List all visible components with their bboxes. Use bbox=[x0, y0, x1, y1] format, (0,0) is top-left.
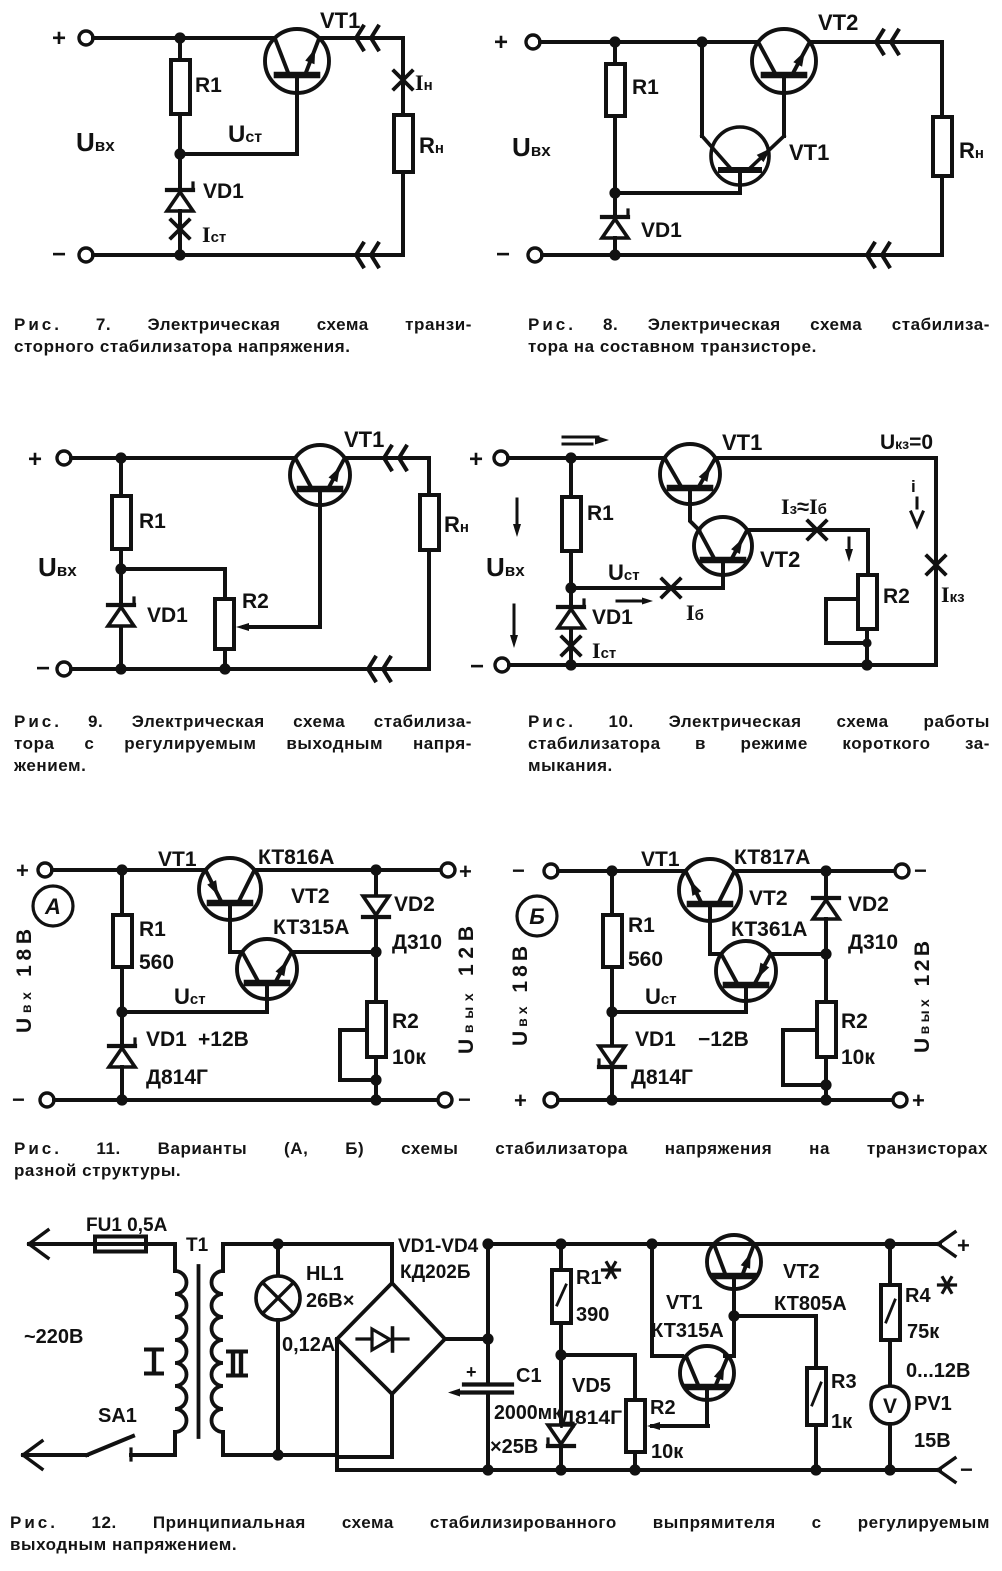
Рис.8: wire VD1 to bottom rail bbox=[613, 238, 617, 255]
Рис.9: wire R2 bottom to rail bbox=[223, 649, 227, 669]
Рис.8: zener diode VD1 bbox=[602, 193, 682, 242]
Рис.9: wiper arrow from VT1 base into R2 bbox=[236, 623, 320, 631]
svg-text:КД202Б: КД202Б bbox=[400, 1262, 471, 1283]
svg-text:−: − bbox=[458, 1087, 471, 1112]
svg-text:R2: R2 bbox=[242, 590, 269, 613]
svg-text:VD1-VD4: VD1-VD4 bbox=[398, 1236, 479, 1257]
Рис.7: top wire from + terminal to VT1 collector bbox=[93, 36, 275, 40]
Рис.12: transformer T1 primary winding I bbox=[146, 1235, 209, 1455]
Рис.11Б: wire R1 bottom to Uст node bbox=[610, 967, 614, 1012]
Рис.11А: junction dot at R2 link bbox=[370, 1074, 381, 1085]
Рис.7: zener diode VD1 bbox=[167, 154, 244, 211]
Рис.11Б: node Uст junction bbox=[606, 1006, 617, 1017]
Рис.11А: transistor VT1 (КТ816А) bbox=[158, 846, 334, 920]
Рис.10: potentiometer R2 bbox=[858, 575, 910, 629]
svg-text:1к: 1к bbox=[831, 1411, 853, 1433]
Рис.11А: wire Uст node to VT2 base bbox=[122, 983, 267, 1012]
svg-text:R1: R1 bbox=[195, 74, 222, 97]
Рис.11Б: wire R2 bottom to rail bbox=[824, 1057, 828, 1100]
Рис.10: bottom rail wire bbox=[509, 663, 936, 667]
Рис.10: small current arrow i/A on right wire bbox=[911, 477, 923, 526]
svg-text:R1: R1 bbox=[632, 76, 659, 99]
Рис.7: junction node at R1 top bbox=[174, 32, 185, 43]
Рис.10: transistor VT2 bbox=[694, 517, 800, 575]
svg-text:КТ361А: КТ361А bbox=[731, 918, 807, 941]
svg-text:~220В: ~220В bbox=[24, 1326, 84, 1348]
Рис.8: node "+" input terminal bbox=[494, 29, 540, 56]
svg-text:VD1: VD1 bbox=[203, 180, 244, 203]
Рис.12: junction at VD5 bottom bbox=[555, 1464, 566, 1475]
svg-text:VD1: VD1 bbox=[147, 604, 188, 627]
svg-text:VD1: VD1 bbox=[592, 606, 633, 629]
Рис.12: output "+" terminal mark bbox=[938, 1232, 970, 1258]
Рис.12: lamp HL1 26В 0,12А bbox=[256, 1244, 354, 1455]
Рис.12: junction at R1 top rail bbox=[555, 1238, 566, 1249]
Рис.10: current direction arrow on top wire bbox=[563, 436, 609, 445]
Рис.8: resistor R1 bbox=[606, 42, 659, 116]
Рис.12: junction at R4 top rail bbox=[884, 1238, 895, 1249]
Рис.9: resistor R1 bbox=[112, 458, 166, 549]
Рис.7: node base junction bbox=[174, 148, 185, 159]
Рис.7: wire right side down to Rн bbox=[401, 38, 405, 115]
svg-text:FU1 0,5А: FU1 0,5А bbox=[86, 1215, 168, 1236]
svg-text:PV1: PV1 bbox=[914, 1393, 952, 1415]
svg-text:−: − bbox=[470, 653, 484, 680]
svg-text:Uст: Uст bbox=[608, 560, 640, 585]
Рис.12: wire R1 bottom to VD5 node bbox=[559, 1323, 563, 1355]
svg-text:+: + bbox=[514, 1088, 527, 1113]
Рис.12: wire PV1 to minus rail bbox=[888, 1424, 892, 1470]
Рис.9: resistor Rн bbox=[420, 458, 469, 550]
Рис.8: wire VT2 base down to VT1 emitter bbox=[782, 75, 786, 136]
svg-text:Iб: Iб bbox=[686, 600, 704, 625]
Рис.11А: node "+" input terminal bbox=[16, 858, 52, 883]
Рис.10: wire VT1 emitter to right corner, label Uкз=0 bbox=[715, 431, 936, 458]
svg-text:HL1: HL1 bbox=[306, 1263, 344, 1285]
Рис.11Б: node "+" output terminal bbox=[893, 1088, 925, 1113]
svg-text:Iн: Iн bbox=[415, 70, 433, 95]
Рис.12: wire VT1 base down to wiper bbox=[705, 1387, 709, 1426]
svg-text:Uвх: Uвх bbox=[512, 132, 551, 162]
Рис.10: junction at R1 top bbox=[565, 452, 576, 463]
Рис.8: wire VT1 collector from top rail bbox=[700, 42, 704, 136]
Рис.11Б: wire VT1 base to VT2 collector bbox=[710, 904, 721, 954]
Рис.8: junction at VD1 top bbox=[609, 187, 620, 198]
svg-text:R1: R1 bbox=[576, 1267, 602, 1289]
Рис.10: node Uст junction bbox=[565, 582, 576, 593]
Рис.11Б: node "-" input terminal bbox=[512, 858, 558, 883]
Рис.12: output "-" terminal mark bbox=[938, 1457, 973, 1482]
Рис.12: secondary top wire to bridge bbox=[223, 1242, 392, 1246]
svg-text:R1: R1 bbox=[139, 510, 166, 533]
svg-text:+: + bbox=[52, 25, 66, 52]
Рис.11Б: transistor VT1 (КТ817А) bbox=[641, 846, 810, 921]
svg-text:390: 390 bbox=[576, 1304, 609, 1326]
svg-text:VT2: VT2 bbox=[783, 1261, 820, 1283]
Рис.8: resistor Rн bbox=[933, 42, 984, 176]
Рис.11Б: top rail from VT1 to output bbox=[734, 869, 895, 873]
svg-text:V: V bbox=[883, 1395, 897, 1418]
Рис.12: wire node to R2 top bbox=[561, 1355, 635, 1400]
Рис.11А: wire R1 bottom to Uст node bbox=[120, 967, 124, 1012]
Рис.9: wire R1 bottom to node bbox=[119, 549, 123, 569]
Рис.9: zener diode VD1 bbox=[108, 569, 188, 627]
Рис.11Б: transistor VT2 (КТ361А) bbox=[716, 887, 807, 1001]
Рис.10: label Uвх and current arrows down bbox=[486, 499, 525, 648]
Рис.12: R2 wiper arrow from VT1 base bbox=[647, 1422, 708, 1430]
Рис.9: node junction above VD1 bbox=[115, 563, 126, 574]
svg-text:КТ816А: КТ816А bbox=[258, 846, 334, 869]
svg-text:+: + bbox=[494, 29, 508, 56]
svg-text:75к: 75к bbox=[907, 1321, 940, 1343]
Рис.9: junction dot VD1 bottom bbox=[115, 663, 126, 674]
svg-text:T1: T1 bbox=[186, 1235, 209, 1256]
Рис.11А: node Uст junction bbox=[116, 1006, 127, 1017]
Рис.7: wire Rн to bottom rail bbox=[401, 172, 405, 255]
svg-text:10к: 10к bbox=[392, 1046, 426, 1069]
Рис.12: junction at R2 bottom bbox=[629, 1464, 640, 1475]
Рис.11Б: wire VT2 emitter to VD2 node bbox=[771, 952, 826, 956]
Рис.10: wire R2 bottom to rail bbox=[865, 629, 869, 665]
Рис.9: wire Rн to bottom rail bbox=[427, 550, 431, 669]
Рис.9: junction dot R2 bottom bbox=[219, 663, 230, 674]
svg-text:−: − bbox=[496, 241, 510, 268]
Рис.11А: R2 wiper shorting link bbox=[340, 1030, 376, 1080]
svg-text:560: 560 bbox=[628, 948, 663, 971]
svg-text:VT2: VT2 bbox=[760, 547, 800, 572]
Рис.7: label Iн and current cross mark bbox=[394, 70, 433, 95]
Рис.11Б: bottom rail wire bbox=[558, 1098, 893, 1102]
Рис.7: resistor R1 bbox=[171, 38, 222, 114]
Рис.11А: junction at VD2 bottom bbox=[370, 946, 381, 957]
Рис.12: junction at HL1 bottom bbox=[272, 1449, 283, 1460]
svg-text:VD5: VD5 bbox=[572, 1375, 611, 1397]
Рис.11Б: variant label Б in circle bbox=[517, 896, 557, 936]
Рис.10: wire R1 bottom to Uст node bbox=[569, 551, 573, 588]
svg-text:Uвх: Uвх bbox=[486, 552, 525, 582]
Рис.10: resistor R1 bbox=[562, 458, 614, 551]
svg-text:VD2: VD2 bbox=[394, 893, 435, 916]
svg-text:VD1: VD1 bbox=[641, 219, 682, 242]
svg-text:VT1: VT1 bbox=[666, 1292, 703, 1314]
Рис.11Б: junction at R1 top bbox=[606, 865, 617, 876]
Рис.12: wire VT1 emitter up to VT2 base node bbox=[725, 1316, 734, 1356]
Рис.10: zener diode VD1 with direction arrow bbox=[558, 588, 653, 629]
svg-text:VT1: VT1 bbox=[344, 427, 384, 452]
svg-text:Б: Б bbox=[529, 904, 545, 929]
svg-text:Iкз: Iкз bbox=[941, 582, 965, 607]
svg-text:560: 560 bbox=[139, 951, 174, 974]
Рис.11А: top rail wire bbox=[52, 868, 206, 872]
svg-text:Iст: Iст bbox=[592, 638, 616, 663]
svg-text:Д310: Д310 bbox=[392, 931, 442, 954]
svg-text:Uвх 18В: Uвх 18В bbox=[13, 929, 36, 1033]
Рис.11А: zener diode VD1 Д814Г, labels +12В bbox=[109, 1012, 249, 1089]
Рис.10: wire VT1 base to VT2 collector bbox=[690, 488, 699, 530]
Рис.10: right side wire down with current mark bbox=[927, 458, 945, 665]
svg-text:R2: R2 bbox=[392, 1010, 419, 1033]
Рис.11Б: wire Uст node to VT2 base bbox=[612, 985, 746, 1012]
svg-text:Uст: Uст bbox=[645, 984, 677, 1009]
svg-text:R2: R2 bbox=[650, 1397, 676, 1419]
svg-text:С1: С1 bbox=[516, 1365, 542, 1387]
Рис.11А: wire VD2 to emitter node bbox=[374, 917, 378, 952]
Рис.12: fuse FU1 0,5А bbox=[86, 1215, 175, 1252]
Рис.11А: wire VD1 to bottom rail bbox=[120, 1067, 124, 1100]
svg-text:15В: 15В bbox=[914, 1430, 951, 1452]
Рис.11А: potentiometer R2 10к bbox=[367, 952, 426, 1069]
Рис.8: bottom return wire with current arrows bbox=[542, 176, 942, 267]
svg-text:+: + bbox=[16, 858, 29, 883]
Рис.12: junction at C1 top bbox=[482, 1333, 493, 1344]
Рис.12: potentiometer R2 10к bbox=[626, 1397, 684, 1463]
Рис.9: wire VT1 emitter to Rн with current arrows bbox=[345, 447, 429, 470]
svg-text:VT1: VT1 bbox=[158, 848, 197, 871]
svg-text:10к: 10к bbox=[651, 1441, 684, 1463]
Рис.11Б: node "+" input terminal bbox=[514, 1088, 558, 1113]
svg-text:26В×: 26В× bbox=[306, 1290, 354, 1312]
Рис.11А: bottom rail wire bbox=[54, 1098, 438, 1102]
Рис.8: junction at VT1 collector branch bbox=[696, 36, 707, 47]
Рис.12: mains input arrow top bbox=[29, 1230, 95, 1258]
svg-text:−: − bbox=[512, 858, 525, 883]
Рис.12: wire R3 bottom to minus rail bbox=[814, 1425, 818, 1470]
Рис.12: voltmeter PV1 15В bbox=[871, 1386, 952, 1452]
svg-text:КТ817А: КТ817А bbox=[734, 846, 810, 869]
svg-text:Rн: Rн bbox=[419, 133, 444, 158]
svg-text:VD2: VD2 bbox=[848, 893, 889, 916]
Рис.12: DC top rail bbox=[488, 1242, 940, 1246]
svg-text:SA1: SA1 bbox=[98, 1405, 137, 1427]
Рис.11А: diode VD2 Д310 bbox=[363, 870, 442, 954]
Рис.12: junction at PV1 bottom bbox=[884, 1464, 895, 1475]
svg-text:R2: R2 bbox=[841, 1010, 868, 1033]
Рис.11А: top rail from VT1 to output bbox=[254, 868, 441, 872]
Рис.11Б: resistor R1 560 bbox=[603, 871, 663, 971]
svg-text:VT1: VT1 bbox=[789, 140, 829, 165]
svg-text:+: + bbox=[28, 446, 42, 473]
Рис.10: junction dot VD1 bottom bbox=[565, 659, 576, 670]
Рис.12: wire R2 bottom to minus rail bbox=[633, 1452, 637, 1470]
Рис.7: label Iст and current cross mark bbox=[171, 211, 226, 255]
Рис.11А: resistor R1 560 bbox=[113, 870, 174, 974]
svg-text:0,12А: 0,12А bbox=[282, 1334, 335, 1356]
Рис.9: top wire to VT1 collector bbox=[71, 456, 295, 460]
svg-text:2000мк: 2000мк bbox=[494, 1402, 563, 1424]
svg-text:+12В: +12В bbox=[198, 1028, 249, 1051]
Рис.12: resistor R1* 390 bbox=[552, 1244, 620, 1326]
Рис.11А: node "-" input terminal bbox=[12, 1087, 54, 1112]
Рис.11Б: diode VD2 Д310 bbox=[813, 871, 898, 954]
svg-text:Rн: Rн bbox=[444, 512, 469, 537]
Рис.12: bridge left corner wire down to AC bottom bbox=[335, 1339, 339, 1470]
svg-text:R4: R4 bbox=[905, 1285, 931, 1307]
svg-text:R1: R1 bbox=[139, 918, 166, 941]
Рис.12: bridge rectifier VD1-VD4 КД202Б bbox=[337, 1236, 479, 1394]
svg-text:Uвх: Uвх bbox=[76, 127, 115, 157]
Рис.9: wire VD1 to bottom rail bbox=[119, 627, 123, 669]
svg-text:+: + bbox=[466, 1362, 477, 1382]
Рис.9: potentiometer R2 bbox=[215, 590, 269, 649]
svg-text:Д814Г: Д814Г bbox=[560, 1408, 622, 1429]
svg-text:−: − bbox=[914, 858, 927, 883]
Рис.11А: wire VT1 base to VT2 collector bbox=[230, 903, 242, 952]
Рис.9: node "+" input terminal bbox=[28, 446, 71, 473]
Рис.12: bridge right corner wire to DC+ node bbox=[445, 1244, 488, 1339]
svg-text:×25В: ×25В bbox=[490, 1436, 538, 1458]
svg-text:Д310: Д310 bbox=[848, 931, 898, 954]
svg-text:+: + bbox=[469, 446, 483, 473]
Рис.12: node VT2 base / VT1 emitter / R3 bbox=[728, 1310, 739, 1321]
Рис.11А: transistor VT2 (КТ315А) bbox=[237, 885, 349, 999]
svg-text:VT1: VT1 bbox=[722, 430, 762, 455]
Рис.12: secondary bottom wire bbox=[223, 1453, 337, 1457]
Рис.9: wire node to R2 top bbox=[121, 569, 225, 599]
Рис.11Б: wire VD1 to bottom rail bbox=[610, 1068, 614, 1100]
Рис.11Б: potentiometer R2 10к bbox=[817, 954, 875, 1069]
Рис.12: resistor R3 1к bbox=[807, 1368, 857, 1433]
Рис.11Б: zener diode VD1 Д814Г, label -12В bbox=[599, 1012, 749, 1089]
svg-text:КТ315А: КТ315А bbox=[273, 916, 349, 939]
Рис.12: junction at VT1 collector rail bbox=[646, 1238, 657, 1249]
svg-text:Iст: Iст bbox=[202, 222, 226, 247]
svg-text:i: i bbox=[911, 477, 916, 496]
Рис.8: wire R1 bottom to VT1 base bbox=[615, 116, 740, 193]
svg-text:Iз≈Iб: Iз≈Iб bbox=[781, 494, 827, 519]
Рис.12: wire node to R3 bbox=[734, 1316, 816, 1368]
svg-text:−: − bbox=[36, 655, 50, 682]
Рис.10: label Iст and cross mark bbox=[562, 629, 616, 665]
svg-text:−: − bbox=[960, 1457, 973, 1482]
Рис.8: junction at R1 top bbox=[609, 36, 620, 47]
Рис.7: transistor VT1 bbox=[265, 8, 360, 93]
Рис.12: junction at R3 bottom bbox=[810, 1464, 821, 1475]
svg-text:R1: R1 bbox=[587, 502, 614, 525]
Рис.12: minus rail wire bbox=[337, 1468, 940, 1472]
svg-text:−12В: −12В bbox=[698, 1028, 749, 1051]
svg-text:VT2: VT2 bbox=[291, 885, 330, 908]
Рис.12: zener diode VD5 Д814Г bbox=[548, 1355, 622, 1470]
svg-text:R1: R1 bbox=[628, 914, 655, 937]
Рис.9: transistor VT1 bbox=[290, 427, 384, 505]
Рис.8: top wire to VT2 collector bbox=[540, 40, 758, 44]
Рис.12: junction at C1 bottom bbox=[482, 1464, 493, 1475]
Рис.11Б: junction at VD2 top bbox=[820, 865, 831, 876]
Рис.10: top wire to VT1 bbox=[508, 456, 665, 460]
svg-text:VT1: VT1 bbox=[641, 848, 680, 871]
Рис.12: junction at HL1 top bbox=[272, 1238, 283, 1249]
Рис.8: transistor VT2 bbox=[752, 10, 858, 93]
Рис.11Б: node "-" output terminal bbox=[895, 858, 927, 883]
Рис.10: R2 wiper shorting link bbox=[826, 599, 872, 648]
Рис.12: switch SA1 with mains arrow bottom bbox=[23, 1405, 175, 1469]
Рис.11Б: wire VD2 to emitter node bbox=[824, 919, 828, 954]
svg-text:Rн: Rн bbox=[959, 138, 984, 163]
svg-text:КТ315А: КТ315А bbox=[651, 1320, 724, 1342]
Рис.11Б: R2 wiper shorting link bbox=[783, 1030, 826, 1085]
Рис.9: bottom return wire with current arrows bbox=[71, 658, 429, 681]
Рис.7: junction dot at VD1 bottom bbox=[174, 249, 185, 260]
svg-text:VD1: VD1 bbox=[635, 1028, 676, 1051]
Рис.12: node R1/VD5/R2 junction bbox=[555, 1349, 566, 1360]
Рис.7: wire base node to VT1 base bbox=[180, 75, 297, 154]
Рис.11А: junction dot R2 bottom bbox=[370, 1094, 381, 1105]
Рис.7: wire R1 to base node bbox=[178, 114, 182, 154]
Рис.12: wire VT1 collector from rail bbox=[652, 1244, 682, 1356]
Рис.11А: variant label А in circle bbox=[33, 886, 73, 926]
svg-text:−: − bbox=[52, 241, 66, 268]
svg-text:Uвх: Uвх bbox=[38, 552, 77, 582]
svg-text:КТ805А: КТ805А bbox=[774, 1293, 847, 1315]
svg-text:VT2: VT2 bbox=[818, 10, 858, 35]
Рис.11Б: junction dot VD1 bottom bbox=[606, 1094, 617, 1105]
Рис.9: junction at R1 top bbox=[115, 452, 126, 463]
svg-text:−: − bbox=[12, 1087, 25, 1112]
svg-text:Uвых 12В: Uвых 12В bbox=[455, 926, 478, 1054]
Рис.11А: node "-" output terminal bbox=[438, 1087, 471, 1112]
Рис.11А: wire VT2 emitter to VD2 node bbox=[292, 950, 376, 954]
Рис.10: transistor VT1 bbox=[660, 430, 762, 504]
Рис.11А: wire R2 bottom to rail bbox=[374, 1057, 378, 1100]
Рис.10: junction dot R2 bottom bbox=[861, 659, 872, 670]
Рис.8: node "-" input terminal bbox=[496, 241, 542, 268]
svg-text:Д814Г: Д814Г bbox=[631, 1066, 693, 1089]
Рис.8: wire VT2 emitter to Rн with current arrows bbox=[810, 31, 942, 54]
svg-text:Uвых 12В: Uвых 12В bbox=[911, 941, 934, 1053]
Рис.10: wire VT2 emitter to R2, cross mark, label Iз≈Iб bbox=[747, 494, 868, 539]
Рис.11А: node "+" output terminal bbox=[441, 859, 472, 884]
Рис.11Б: junction at VD2 bottom bbox=[820, 948, 831, 959]
Рис.11А: junction at VD2 top bbox=[370, 864, 381, 875]
Рис.7: bottom return wire with current arrows bbox=[93, 244, 403, 267]
Рис.10: current arrow down at R2 wire corner bbox=[845, 538, 853, 562]
Рис.10: wire Uст node to VT2 base with cross mark and Iб label bbox=[571, 560, 723, 625]
Рис.11Б: top rail wire bbox=[558, 869, 686, 873]
Рис.12: transistor VT1 КТ315А bbox=[651, 1292, 734, 1400]
Рис.11Б: junction dot R2 bottom bbox=[820, 1094, 831, 1105]
Рис.10: node "+" input terminal bbox=[469, 446, 508, 473]
svg-text:+: + bbox=[912, 1088, 925, 1113]
Рис.12: transformer T1 secondary winding II bbox=[212, 1244, 247, 1455]
Рис.8: junction dot at VD1 bottom bbox=[609, 249, 620, 260]
Рис.11А: junction dot VD1 bottom bbox=[116, 1094, 127, 1105]
Рис.7: resistor Rн bbox=[394, 115, 444, 172]
Рис.7: node "-" input terminal bbox=[52, 241, 93, 268]
Рис.11Б: junction dot at R2 link bbox=[820, 1079, 831, 1090]
svg-text:Д814Г: Д814Г bbox=[146, 1066, 208, 1089]
Рис.12: transformer core bbox=[197, 1266, 201, 1437]
Рис.7: node "+" input terminal bbox=[52, 25, 93, 52]
svg-text:R2: R2 bbox=[883, 585, 910, 608]
svg-text:10к: 10к bbox=[841, 1046, 875, 1069]
svg-text:+: + bbox=[459, 859, 472, 884]
svg-text:Uкз=0: Uкз=0 bbox=[880, 431, 933, 454]
Рис.12: capacitor C1 2000мк 25В bbox=[448, 1339, 563, 1470]
svg-text:VT1: VT1 bbox=[320, 8, 360, 33]
Рис.12: resistor R4* 75к bbox=[881, 1244, 956, 1343]
svg-text:Uст: Uст bbox=[228, 121, 262, 148]
Рис.9: wire VT1 base down to wiper bbox=[318, 489, 322, 627]
Рис.10: node "-" input terminal bbox=[470, 653, 509, 680]
svg-text:А: А bbox=[44, 894, 61, 919]
Рис.8: transistor VT1 bbox=[702, 127, 829, 185]
svg-text:+: + bbox=[957, 1233, 970, 1258]
Рис.12: junction at DC+ rail corner bbox=[482, 1238, 493, 1249]
Рис.12: wire VT2 base down to node bbox=[732, 1276, 736, 1316]
Рис.12: bridge bottom corner wire bbox=[337, 1394, 392, 1457]
svg-text:0...12В: 0...12В bbox=[906, 1360, 970, 1382]
svg-text:VD1: VD1 bbox=[146, 1028, 187, 1051]
